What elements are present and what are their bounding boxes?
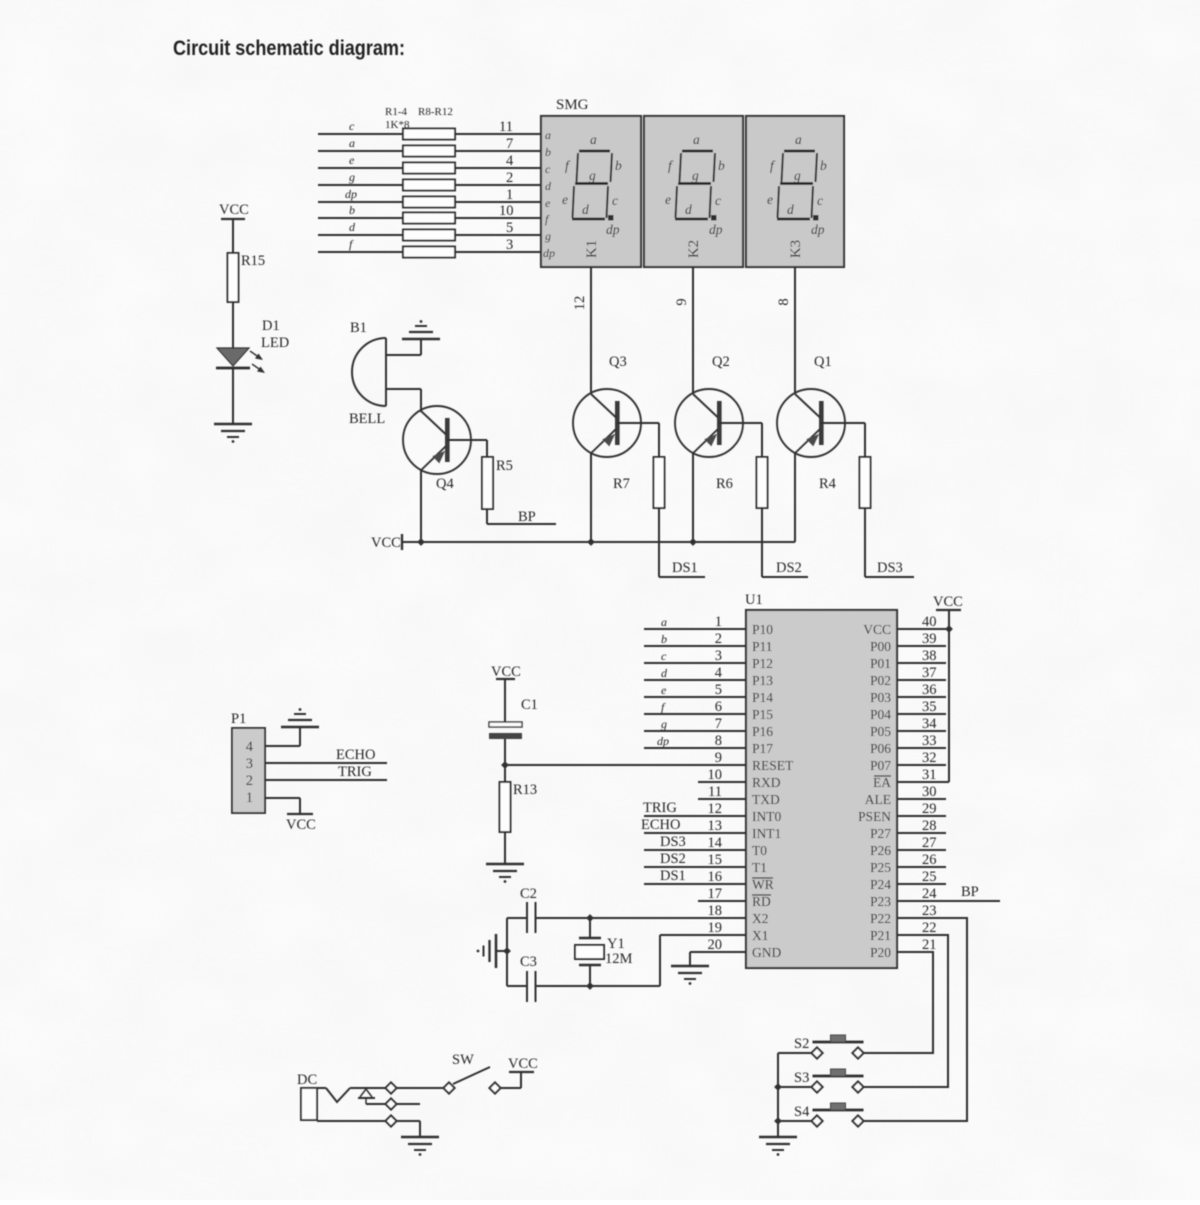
svg-text:Circuit schematic diagram:: Circuit schematic diagram: <box>173 36 405 60</box>
junction S3/rail <box>774 1083 782 1091</box>
U1 pin numbers right 40-21 <box>922 614 937 953</box>
svg-text:P20: P20 <box>870 945 891 960</box>
junction Q3 emitter / VCC rail <box>587 538 595 546</box>
wire U1 pin 1 net a <box>644 615 746 629</box>
svg-text:e: e <box>661 683 667 697</box>
svg-text:36: 36 <box>922 682 937 698</box>
wire U1 pin 28 stub <box>897 832 946 834</box>
wire Q4 base to R5 <box>447 439 487 441</box>
svg-text:Q2: Q2 <box>712 354 730 370</box>
svg-text:R4: R4 <box>819 476 837 492</box>
svg-text:P05: P05 <box>870 724 891 739</box>
svg-text:4: 4 <box>246 739 254 755</box>
svg-text:c: c <box>545 162 551 176</box>
crystal Y1 12M <box>575 918 633 986</box>
key S3 <box>794 1069 864 1093</box>
svg-text:g: g <box>661 717 667 731</box>
svg-text:S2: S2 <box>794 1036 809 1052</box>
svg-text:dp: dp <box>543 246 555 260</box>
svg-text:a: a <box>545 128 551 142</box>
svg-text:8: 8 <box>715 733 722 749</box>
wire R15 to LED <box>232 302 234 348</box>
svg-text:P00: P00 <box>870 639 891 654</box>
svg-text:RXD: RXD <box>752 775 781 790</box>
key S2 <box>794 1035 864 1059</box>
svg-text:DS1: DS1 <box>660 868 686 884</box>
sideways ground left of rail <box>477 934 507 968</box>
wire Q1 base to R4 <box>821 422 865 424</box>
svg-text:S3: S3 <box>794 1070 809 1086</box>
svg-text:VCC: VCC <box>371 535 401 551</box>
wire U1 pin 2 net b <box>644 632 746 646</box>
wire U1 pin 29 stub <box>897 815 946 817</box>
svg-text:TRIG: TRIG <box>338 764 372 780</box>
svg-text:b: b <box>661 632 667 646</box>
svg-text:P22: P22 <box>870 911 891 926</box>
wire U1 pin 36 stub <box>897 696 946 698</box>
svg-text:d: d <box>661 666 668 680</box>
wire U1 pin 26 stub <box>897 866 946 868</box>
VCC symbol above switch <box>508 1056 538 1072</box>
svg-text:24: 24 <box>922 886 937 902</box>
svg-text:12M: 12M <box>605 951 633 967</box>
wire VCC down to EA pin 31 <box>948 629 950 782</box>
svg-text:15: 15 <box>708 852 723 868</box>
VCC rail <box>371 534 795 551</box>
7-seg digit K1 box <box>541 116 641 267</box>
wire P1 pin 1 to VCC <box>265 797 300 799</box>
switch SW <box>443 1052 500 1094</box>
ground under R13 <box>486 864 524 883</box>
svg-text:BP: BP <box>961 884 979 900</box>
svg-text:DS3: DS3 <box>877 560 903 576</box>
svg-text:C1: C1 <box>521 697 538 713</box>
svg-text:12: 12 <box>572 296 588 311</box>
wire node to R13 <box>504 765 506 782</box>
resistor R5 <box>482 457 513 509</box>
svg-text:P25: P25 <box>870 860 891 875</box>
wire U1 pin 6 net f <box>644 700 746 714</box>
svg-text:P21: P21 <box>870 928 891 943</box>
svg-text:C3: C3 <box>520 954 537 970</box>
svg-text:TRIG: TRIG <box>643 800 677 816</box>
svg-text:GND: GND <box>752 945 781 960</box>
svg-text:BELL: BELL <box>349 411 385 427</box>
wire Q3 emitter to rail <box>590 452 592 542</box>
svg-text:c: c <box>661 649 667 663</box>
wire R5 to BP <box>487 509 556 525</box>
svg-text:8: 8 <box>776 298 792 305</box>
svg-text:C2: C2 <box>520 886 537 902</box>
capacitor C1 <box>489 697 538 739</box>
resistor R4 <box>403 180 455 191</box>
svg-text:9: 9 <box>715 750 722 766</box>
ground for DC jack <box>401 1137 439 1156</box>
svg-text:19: 19 <box>708 920 723 936</box>
svg-text:VCC: VCC <box>286 817 316 833</box>
7-seg segments digit 3 <box>767 132 827 237</box>
svg-text:P1: P1 <box>231 711 246 727</box>
resistor R3 <box>403 163 455 174</box>
wire S2 left to rail <box>778 1052 812 1054</box>
wire C3 row to corner <box>536 985 661 987</box>
svg-text:3: 3 <box>246 756 253 772</box>
svg-text:DS1: DS1 <box>672 560 698 576</box>
svg-text:DC: DC <box>297 1072 317 1088</box>
svg-text:1: 1 <box>506 187 513 203</box>
VCC symbol below P1 <box>286 814 316 833</box>
wire B1 bottom terminal to Q4 collector <box>386 388 421 390</box>
svg-text:27: 27 <box>922 835 937 851</box>
7-seg digit K2 box <box>644 116 743 267</box>
svg-text:1: 1 <box>246 790 253 806</box>
resistor R6 <box>716 457 768 508</box>
svg-text:40: 40 <box>922 614 937 630</box>
wire U1 pin 14 net DS3 <box>644 834 746 850</box>
transistor Q2 <box>675 354 743 457</box>
svg-text:c: c <box>349 119 355 133</box>
svg-text:31: 31 <box>922 767 937 783</box>
wire net g (pin 2) <box>318 170 541 186</box>
junction pin40/VCC <box>945 625 953 633</box>
inverted ground above B1 <box>402 320 440 339</box>
wire U1 pin 37 stub <box>897 679 946 681</box>
svg-text:32: 32 <box>922 750 937 766</box>
svg-text:13: 13 <box>708 818 723 834</box>
svg-text:P10: P10 <box>752 622 773 637</box>
resistor R4 <box>819 457 871 508</box>
wire R6 to DS2 <box>762 508 808 577</box>
wire U1 pin 4 net d <box>644 666 746 680</box>
svg-text:DS3: DS3 <box>660 834 686 850</box>
wire R4 to DS3 <box>865 508 914 577</box>
svg-text:dp: dp <box>657 734 669 748</box>
svg-text:17: 17 <box>708 886 723 902</box>
svg-text:16: 16 <box>708 869 723 885</box>
resistor R8 <box>403 197 455 208</box>
svg-text:K1: K1 <box>584 240 600 258</box>
wire Q3 base to R7 <box>617 422 659 424</box>
svg-text:VCC: VCC <box>491 664 521 680</box>
svg-text:a: a <box>349 136 355 150</box>
svg-text:D1: D1 <box>262 318 280 334</box>
wire U1 pin 25 stub <box>897 883 946 885</box>
jack tip contact <box>317 1088 385 1102</box>
wire R13 to ground <box>504 832 506 864</box>
svg-text:e: e <box>545 196 551 210</box>
junction C3/Y1 bottom <box>586 982 594 990</box>
svg-text:ECHO: ECHO <box>641 817 680 833</box>
wire U1 pin 15 net DS2 <box>644 851 746 867</box>
wire U1 pin 34 stub <box>897 730 946 732</box>
svg-text:g: g <box>545 229 551 243</box>
svg-text:2: 2 <box>506 170 513 186</box>
svg-text:SW: SW <box>452 1052 474 1068</box>
resistor R15 <box>228 253 266 302</box>
svg-text:26: 26 <box>922 852 937 868</box>
LED D1 <box>216 318 289 373</box>
wire U1 pin 9 RESET to C1/R13 node <box>505 764 746 766</box>
svg-text:S4: S4 <box>794 1104 810 1120</box>
resistor network labels R1-4 R8-R12 1K*8 <box>385 106 453 131</box>
buzzer B1 <box>349 320 386 427</box>
7-seg segments digit 2 <box>665 132 725 237</box>
svg-text:P07: P07 <box>870 758 891 773</box>
svg-text:18: 18 <box>708 903 723 919</box>
svg-text:7: 7 <box>715 716 722 732</box>
wire S3 left to rail <box>778 1086 812 1088</box>
svg-text:WR: WR <box>752 877 774 892</box>
svg-text:R7: R7 <box>613 476 630 492</box>
resistor R2 <box>403 146 455 157</box>
U1 pin numbers left 1-20 <box>708 614 723 953</box>
wire U1 pin 13 net ECHO <box>641 817 746 833</box>
wire row 2 stub <box>397 1103 420 1105</box>
svg-text:30: 30 <box>922 784 937 800</box>
wire P1 pin 3 net ECHO <box>265 747 387 763</box>
wire U1 pin 3 net c <box>644 649 746 663</box>
svg-text:T0: T0 <box>752 843 767 858</box>
svg-text:RESET: RESET <box>752 758 794 773</box>
wire U1 pin 40 <box>897 628 949 630</box>
VCC symbol at U1 pin 40 <box>933 594 963 629</box>
svg-text:33: 33 <box>922 733 937 749</box>
capacitor C3 <box>507 954 537 1002</box>
ground under LED <box>214 424 252 443</box>
svg-text:DS2: DS2 <box>660 851 686 867</box>
svg-text:B1: B1 <box>350 320 367 336</box>
7-seg digit K3 box <box>746 116 844 267</box>
wire U1 pin 23 P22 to S4 <box>861 918 967 1121</box>
svg-text:R15: R15 <box>241 253 265 269</box>
wire Q1 emitter to rail <box>794 452 796 542</box>
svg-text:22: 22 <box>922 920 937 936</box>
svg-text:EA: EA <box>873 775 891 790</box>
svg-text:R5: R5 <box>496 458 513 474</box>
svg-text:28: 28 <box>922 818 937 834</box>
svg-text:LED: LED <box>261 335 289 351</box>
wire net d (pin 5) <box>318 220 541 236</box>
junction Q2 emitter / VCC rail <box>689 538 697 546</box>
svg-text:b: b <box>545 145 551 159</box>
svg-text:b: b <box>349 203 355 217</box>
svg-text:dp: dp <box>345 187 357 201</box>
svg-text:P14: P14 <box>752 690 773 705</box>
wire U1 pin 10 stub <box>698 781 746 783</box>
svg-text:P03: P03 <box>870 690 891 705</box>
IC U1 box <box>745 592 897 968</box>
wire U1 pin 31 EA to VCC line <box>897 781 949 783</box>
svg-text:DS2: DS2 <box>776 560 802 576</box>
svg-text:R1-4: R1-4 <box>385 106 408 118</box>
resistor R10 <box>403 230 455 241</box>
svg-text:3: 3 <box>715 648 722 664</box>
svg-text:P11: P11 <box>752 639 773 654</box>
svg-text:VCC: VCC <box>933 594 963 610</box>
svg-text:X2: X2 <box>752 911 769 926</box>
wire U1 pin 39 stub <box>897 645 946 647</box>
svg-text:9: 9 <box>674 298 690 305</box>
svg-text:d: d <box>545 179 552 193</box>
wire U1 pin 20 GND to ground <box>690 951 746 953</box>
wire U1 pin 21 P20 to S2 <box>861 952 933 1053</box>
svg-text:RD: RD <box>752 894 771 909</box>
wire net c (pin 11) <box>318 119 541 135</box>
wire net e (pin 4) <box>318 153 541 169</box>
svg-text:Q4: Q4 <box>436 476 454 492</box>
svg-text:4: 4 <box>506 153 514 169</box>
contact node row 2 <box>385 1098 396 1109</box>
wire Q4 emitter down to VCC rail <box>420 469 422 542</box>
wire C3 row up to X1 (U1 pin 19) <box>659 935 661 986</box>
resistor R11 <box>403 247 455 258</box>
transistor Q3 <box>573 354 641 457</box>
svg-text:1: 1 <box>715 614 722 630</box>
wire C1 to node <box>504 739 506 765</box>
transistor Q4 <box>403 406 471 492</box>
VCC supply above C1 <box>491 664 521 722</box>
wire switch to VCC <box>501 1087 521 1089</box>
svg-text:P12: P12 <box>752 656 773 671</box>
junction C1/R13/RESET <box>501 761 509 769</box>
resistor R13 <box>500 782 538 832</box>
svg-text:VCC: VCC <box>863 622 891 637</box>
wire U1 pin 35 stub <box>897 713 946 715</box>
svg-text:39: 39 <box>922 631 937 647</box>
transistor Q1 <box>777 354 845 457</box>
wire U1 pin 30 stub <box>897 798 946 800</box>
svg-text:TXD: TXD <box>752 792 780 807</box>
wire Q2 emitter to rail <box>692 452 694 542</box>
svg-text:T1: T1 <box>752 860 767 875</box>
wire U1 pin 32 stub <box>897 764 946 766</box>
svg-text:K2: K2 <box>686 240 702 258</box>
svg-text:a: a <box>661 615 667 629</box>
wire U1 pin 7 net g <box>644 717 746 731</box>
svg-text:VCC: VCC <box>508 1056 538 1072</box>
svg-text:29: 29 <box>922 801 937 817</box>
wire K3 pin 8 down to Q1 <box>776 267 795 394</box>
svg-text:2: 2 <box>246 773 253 789</box>
junction Q4 emitter / VCC rail <box>417 538 425 546</box>
wire to switch <box>397 1087 444 1089</box>
wire U1 pin 16 net DS1 <box>644 868 746 884</box>
svg-text:4: 4 <box>715 665 723 681</box>
svg-text:P24: P24 <box>870 877 891 892</box>
capacitor C2 <box>507 886 537 933</box>
junction left rail / ground <box>503 947 511 955</box>
svg-text:34: 34 <box>922 716 937 732</box>
svg-text:38: 38 <box>922 648 937 664</box>
jack sleeve wire row 3 <box>308 1120 310 1121</box>
svg-text:P17: P17 <box>752 741 773 756</box>
svg-text:SMG: SMG <box>556 97 589 113</box>
ground under U1 GND pin <box>671 966 709 985</box>
svg-text:12: 12 <box>708 801 723 817</box>
svg-text:23: 23 <box>922 903 937 919</box>
ground under keys <box>759 1137 797 1156</box>
wire Q2 base to R6 <box>719 422 762 424</box>
wire net a (pin 7) <box>318 136 541 152</box>
svg-text:11: 11 <box>708 784 722 800</box>
svg-text:R8-R12: R8-R12 <box>418 106 453 118</box>
key S4 <box>794 1103 864 1127</box>
ground rail for keys <box>777 1053 779 1137</box>
wire C2 to X2 (U1 pin 18) <box>536 917 747 919</box>
svg-text:P15: P15 <box>752 707 773 722</box>
wire net b (pin 10) <box>318 203 541 219</box>
resistor R9 <box>403 213 455 224</box>
wire U1 pin 33 stub <box>897 747 946 749</box>
svg-text:R6: R6 <box>716 476 733 492</box>
svg-text:ALE: ALE <box>865 792 891 807</box>
svg-text:e: e <box>349 153 355 167</box>
svg-text:P26: P26 <box>870 843 891 858</box>
svg-text:5: 5 <box>715 682 722 698</box>
svg-text:P16: P16 <box>752 724 773 739</box>
wire U1 pin 8 net dp <box>644 734 746 748</box>
svg-text:37: 37 <box>922 665 937 681</box>
svg-text:PSEN: PSEN <box>858 809 891 824</box>
svg-text:11: 11 <box>499 119 513 135</box>
svg-text:INT1: INT1 <box>752 826 781 841</box>
svg-text:P23: P23 <box>870 894 891 909</box>
svg-text:7: 7 <box>506 136 513 152</box>
svg-text:10: 10 <box>499 203 514 219</box>
junction C2/Y1 top <box>586 914 594 922</box>
left rail C2-C3 <box>506 918 508 986</box>
wire net f (pin 3) <box>318 237 541 253</box>
svg-text:P13: P13 <box>752 673 773 688</box>
svg-text:ECHO: ECHO <box>336 747 375 763</box>
svg-text:g: g <box>349 170 355 184</box>
wire R7 to DS1 <box>659 508 705 577</box>
wire row 3 to ground <box>397 1120 420 1122</box>
svg-text:K3: K3 <box>788 240 804 258</box>
wire net dp (pin 1) <box>318 187 541 203</box>
svg-text:10: 10 <box>708 767 723 783</box>
contact node row 3 <box>385 1115 396 1126</box>
wire U1 pin 17 stub <box>698 900 746 902</box>
svg-text:2: 2 <box>715 631 722 647</box>
svg-text:BP: BP <box>518 509 536 525</box>
svg-text:Q3: Q3 <box>609 354 627 370</box>
jack middle contact <box>358 1089 385 1104</box>
resistor R1 <box>403 129 455 140</box>
wire U1 pin 11 stub <box>698 798 746 800</box>
wire U1 pin 24 net BP <box>897 884 1000 901</box>
svg-text:U1: U1 <box>745 592 763 608</box>
resistor R7 <box>613 457 665 508</box>
svg-text:R13: R13 <box>513 782 537 798</box>
wire S4 left to rail <box>778 1120 812 1122</box>
svg-text:P06: P06 <box>870 741 891 756</box>
svg-text:25: 25 <box>922 869 937 885</box>
wire B1 top terminal to ground <box>386 354 421 356</box>
connector P1 <box>231 711 265 813</box>
wire P1 pin 4 to ground <box>265 745 300 747</box>
svg-text:P02: P02 <box>870 673 891 688</box>
svg-text:Q1: Q1 <box>814 354 832 370</box>
svg-text:5: 5 <box>506 220 513 236</box>
svg-text:3: 3 <box>506 237 513 253</box>
VCC supply for LED <box>219 202 249 253</box>
svg-text:6: 6 <box>715 699 722 715</box>
svg-text:d: d <box>349 220 356 234</box>
wire K1 pin 12 down to Q3 <box>572 267 591 394</box>
svg-text:14: 14 <box>708 835 723 851</box>
wire U1 pin 27 stub <box>897 849 946 851</box>
